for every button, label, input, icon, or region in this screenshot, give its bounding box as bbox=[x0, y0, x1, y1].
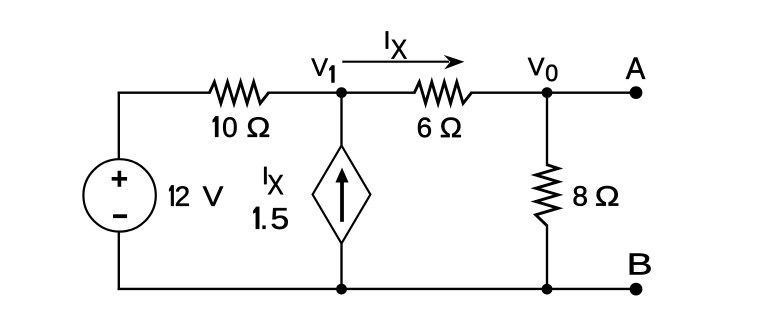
wire left rail vertical bottom (source to bottom wire) bbox=[118, 232, 120, 289]
dependent current source U1 diamond bbox=[313, 146, 371, 244]
label V1 bbox=[311, 59, 334, 83]
current Ix arrow above 6 ohm bbox=[342, 61, 449, 63]
wire V0 node down to 8-ohm resistor bbox=[546, 93, 548, 165]
label Ix above wire bbox=[386, 31, 407, 58]
wire left rail vertical top (source to top wire) bbox=[118, 93, 120, 160]
voltage source V 12V circle bbox=[83, 159, 155, 231]
label 1.5 coefficient bbox=[253, 207, 287, 229]
label 10 ohm value bbox=[213, 116, 269, 137]
bottom junction dot under V1 bbox=[336, 284, 347, 295]
label terminal A bbox=[626, 58, 645, 79]
resistor R1 10 ohm bbox=[210, 82, 269, 103]
bottom junction dot under V0 bbox=[542, 284, 553, 295]
arrow inside current source bbox=[340, 181, 344, 222]
label V0 bbox=[528, 58, 557, 81]
wire between 10-ohm resistor and node V1 bbox=[269, 92, 342, 94]
label terminal B bbox=[630, 254, 651, 275]
wire top-left horizontal from left rail to 10-ohm resistor bbox=[119, 92, 210, 94]
wire between 6-ohm resistor and node V0 bbox=[472, 92, 548, 94]
terminal B dot bbox=[630, 283, 643, 296]
wire bottom rail bbox=[119, 288, 636, 290]
label 6 ohm value bbox=[418, 118, 461, 138]
node V0 junction dot bbox=[542, 87, 553, 98]
wire between node V1 and 6-ohm resistor bbox=[342, 92, 415, 94]
wire V1 node down to current source diamond bbox=[340, 93, 342, 146]
minus sign of source bbox=[113, 214, 127, 218]
terminal A dot bbox=[630, 86, 643, 99]
label 8 ohm value bbox=[574, 186, 619, 206]
label 12 V value bbox=[169, 185, 223, 205]
resistor R3 8 ohm bbox=[536, 165, 559, 226]
node V1 junction dot bbox=[336, 87, 347, 98]
label Ix gain of dependent source bbox=[264, 167, 283, 195]
wire node V0 to terminal A bbox=[547, 92, 636, 94]
resistor R2 6 ohm bbox=[414, 82, 471, 103]
plus sign of source bbox=[112, 171, 127, 187]
wire 8-ohm resistor to bottom rail bbox=[546, 226, 548, 289]
wire current source diamond to bottom rail bbox=[340, 244, 342, 289]
